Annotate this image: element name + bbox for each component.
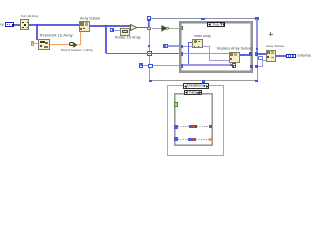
node xy label [0,23,3,26]
boolean wire to selector [169,28,180,29]
wire Array Subset to junction [90,25,132,27]
inner case selector label False [184,90,202,95]
thick array wire into case [106,53,180,55]
wire 0 into case [143,65,180,66]
wire to Replace lower input [209,60,230,61]
wire xy to Sort [14,24,20,26]
numeric constant 8 [31,41,35,46]
Empty Array? primitive [161,25,169,32]
tunnel on structure bottom left [149,80,152,83]
wire lower bend to icon [258,66,263,67]
wire n to case tunnel [168,45,180,46]
green tunnel inner case [174,102,178,107]
wire junction [36,24,38,26]
junction dot on border [148,45,150,47]
Replace Array Subset icon [229,52,240,63]
wire Round up to Array Subset index [78,44,82,45]
Array Subset icon [79,21,90,32]
Add function triangle [130,24,138,31]
wire into Index Array left [188,42,193,43]
case selector tunnel [179,26,183,30]
Rotate 1D Array label [115,36,141,40]
hollow tunnel array wire mid [147,51,152,56]
index constant box [232,63,236,68]
case tunnel out [249,52,252,56]
node subarray label [297,54,311,58]
Threshold 1D Array icon [38,39,50,49]
cursor plus mark [269,34,273,35]
Sort 1D Array label [21,15,39,18]
wire branch down long [105,26,107,53]
case selector label True [207,22,225,27]
wire array branch vertical [188,42,189,65]
Round Toward +Infinity primitive [69,42,74,47]
case tunnel array [179,52,183,56]
tunnel top-left [147,16,152,21]
wire icon to subarray [276,55,286,57]
disabled icon row2 [188,138,190,141]
wire Index out down [209,47,210,61]
tunnel top-right corner [255,17,258,20]
hollow tunnel array into structure [147,27,151,31]
Array Subset label [80,17,100,20]
wire tunnel to Array Subset right [258,53,266,55]
Rotate 1D Array icon [120,28,131,36]
Index Array icon [192,39,202,48]
small index box [258,56,263,60]
wire junction on top wire [201,18,204,21]
wire branch down to Threshold [36,25,37,40]
wire Sort to Array Subset [29,24,79,26]
wire Add to tunnel [137,27,148,29]
wire junction lower [230,64,232,66]
wire down right side [256,19,257,52]
wire Threshold to Round [50,44,69,45]
Sort 1D Array icon [20,19,29,30]
case tunnel lower [179,64,183,68]
hollow tunnel lower [148,64,153,68]
wire junction [105,25,107,27]
outer tunnel out [255,52,259,56]
inner case structure frame [174,93,213,146]
case tunnel n [179,45,183,49]
wire to Empty Array? [152,28,162,29]
disable structure frame [167,85,224,156]
outer structure frame [149,18,258,81]
Replace Array Subset label [217,47,252,51]
Round Toward + Infinity label [61,49,93,52]
wire dot right [256,48,258,50]
Threshold 1D Array label [39,34,73,38]
disabled wire row1 [174,125,178,129]
wire stub to Replace bottom [230,62,231,64]
wire lower across case [183,64,230,65]
case tunnel lower out [250,65,253,69]
outer tunnel lower out [255,65,259,69]
wire along structure top [152,18,256,19]
output terminal subarray [286,54,296,59]
case structure frame [179,21,253,74]
wire 1 to Rotate [114,30,119,31]
wire array to Replace [183,53,229,55]
constant 0 small box [139,63,143,68]
wire Replace to tunnel [240,54,250,56]
input terminal xy [5,22,15,27]
Array Subset right icon [266,50,277,62]
disable selector label Disabled [183,83,209,88]
wire 8 to Threshold [34,43,38,44]
Index Array label [194,35,211,38]
Array Subset right label [266,45,284,48]
disabled icon row1 [189,125,192,128]
tunnel on structure bottom right [255,80,258,83]
constant n [163,44,168,48]
disabled wire row2 [174,137,178,141]
tunnel on structure bottom mid [202,80,205,83]
wire Rotate to Add [130,29,132,30]
numeric constant 1 [110,28,114,32]
wire index pale across [183,46,210,47]
